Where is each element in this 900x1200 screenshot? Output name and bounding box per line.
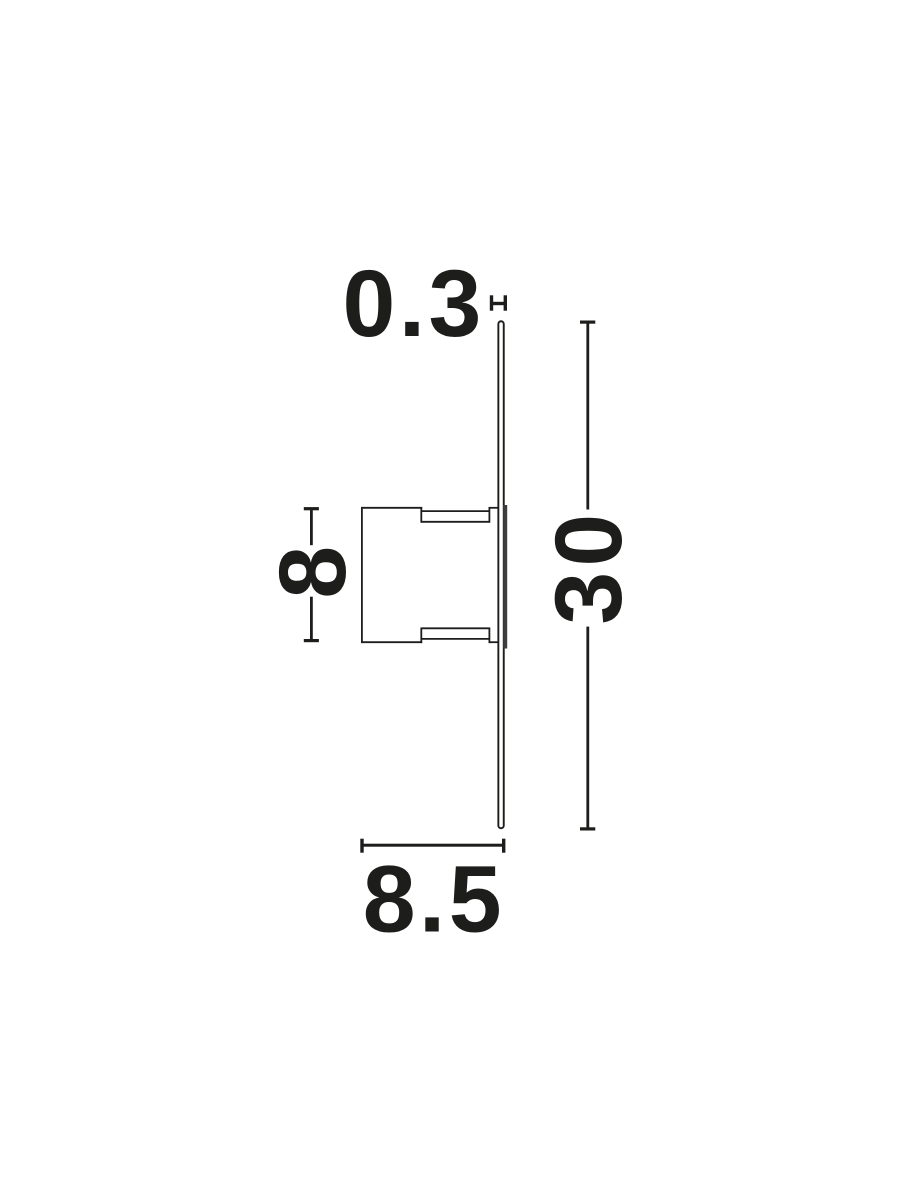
svg-text:0.3: 0.3 — [343, 251, 485, 357]
svg-text:8.5: 8.5 — [363, 846, 505, 952]
svg-text:8: 8 — [260, 546, 366, 599]
svg-text:30: 30 — [536, 509, 642, 625]
